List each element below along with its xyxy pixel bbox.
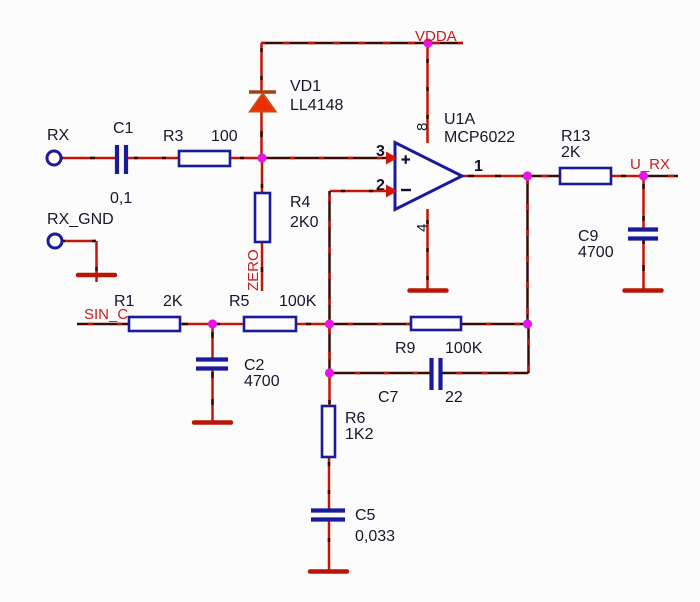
svg-text:C9: C9: [578, 228, 599, 245]
svg-text:8: 8: [414, 123, 431, 131]
svg-text:SIN_C: SIN_C: [84, 306, 128, 323]
svg-text:R13: R13: [561, 128, 590, 145]
svg-text:LL4148: LL4148: [290, 97, 343, 114]
svg-text:RX: RX: [47, 127, 70, 144]
svg-text:0,1: 0,1: [110, 190, 132, 207]
svg-text:22: 22: [445, 389, 463, 406]
svg-text:C7: C7: [378, 389, 399, 406]
svg-text:2K: 2K: [163, 293, 183, 310]
svg-text:R9: R9: [395, 340, 416, 357]
svg-text:2K: 2K: [561, 144, 581, 161]
svg-text:100K: 100K: [445, 340, 483, 357]
svg-text:R6: R6: [345, 410, 366, 427]
svg-text:RX_GND: RX_GND: [47, 211, 114, 228]
svg-text:MCP6022: MCP6022: [444, 129, 515, 146]
svg-text:VD1: VD1: [290, 78, 321, 95]
svg-text:1: 1: [474, 158, 483, 175]
svg-text:4700: 4700: [578, 244, 614, 261]
svg-text:R5: R5: [229, 293, 250, 310]
svg-text:100K: 100K: [279, 293, 317, 310]
svg-text:C1: C1: [113, 120, 134, 137]
svg-text:R3: R3: [163, 128, 184, 145]
svg-text:2K0: 2K0: [290, 214, 319, 231]
svg-text:VDDA: VDDA: [415, 28, 457, 45]
svg-text:4: 4: [414, 224, 431, 232]
svg-text:0,033: 0,033: [355, 528, 395, 545]
svg-text:1K2: 1K2: [345, 426, 374, 443]
svg-text:U1A: U1A: [444, 111, 475, 128]
svg-text:C2: C2: [244, 357, 265, 374]
svg-text:C5: C5: [355, 507, 376, 524]
svg-text:100: 100: [211, 128, 238, 145]
svg-text:3: 3: [376, 143, 385, 160]
svg-text:R4: R4: [290, 194, 311, 211]
svg-text:U_RX: U_RX: [630, 156, 670, 173]
svg-text:ZERO: ZERO: [245, 249, 262, 291]
svg-text:4700: 4700: [244, 373, 280, 390]
svg-text:2: 2: [376, 177, 385, 194]
